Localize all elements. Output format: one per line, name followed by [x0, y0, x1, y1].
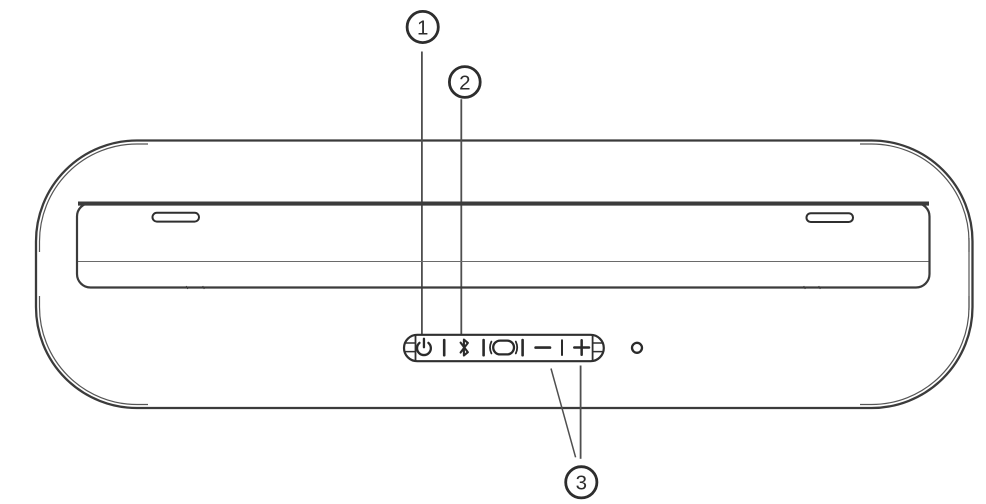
body edge highlight right side	[968, 238, 970, 310]
separator bar 1	[443, 340, 446, 355]
panel bottom tick marks left	[186, 286, 205, 289]
control strip left end-cap line	[415, 335, 417, 361]
control strip right end-cap line	[592, 335, 594, 361]
microphone hole	[632, 343, 642, 353]
svg-text:1: 1	[417, 16, 428, 39]
control strip pill outline	[404, 335, 604, 361]
panel inner horizontal seam line	[78, 261, 929, 263]
separator bar 4	[561, 340, 563, 355]
bluetooth button icon	[461, 340, 468, 356]
recessed panel lip (thick top edge)	[78, 202, 929, 206]
panel bottom tick marks right	[804, 286, 821, 289]
volume plus button	[574, 340, 589, 355]
body edge highlight bottom-right corner	[860, 296, 969, 405]
control strip right end-cap hatch lines	[593, 343, 604, 352]
body edge highlight top-left corner	[40, 144, 149, 252]
body edge highlight bottom-left corner	[40, 296, 149, 405]
right grille slot	[807, 213, 854, 222]
callout circle 3	[566, 467, 597, 498]
multifunction button oval icon	[493, 341, 514, 355]
recessed panel outline	[77, 203, 930, 288]
multifunction right sound-wave arc	[516, 342, 517, 354]
separator bar 3	[521, 340, 524, 355]
control strip left end-cap hatch lines	[404, 343, 415, 352]
svg-text:2: 2	[459, 71, 470, 94]
separator bar 2	[482, 340, 485, 355]
volume minus button	[536, 346, 550, 349]
speaker body outline	[36, 141, 973, 409]
callout leader line 2	[460, 99, 462, 335]
body edge highlight top-right corner	[860, 144, 969, 252]
power button icon	[417, 339, 431, 355]
callout leader line 1	[421, 52, 423, 336]
svg-text:3: 3	[576, 472, 587, 495]
callout circle 2	[449, 67, 480, 98]
callout leader line 3 diagonal (from minus button)	[551, 369, 576, 458]
callout leader line 3 vertical (from plus button)	[580, 366, 582, 459]
multifunction left sound-wave arc	[490, 342, 491, 354]
left grille slot	[153, 213, 200, 222]
callout circle 1	[407, 11, 438, 42]
